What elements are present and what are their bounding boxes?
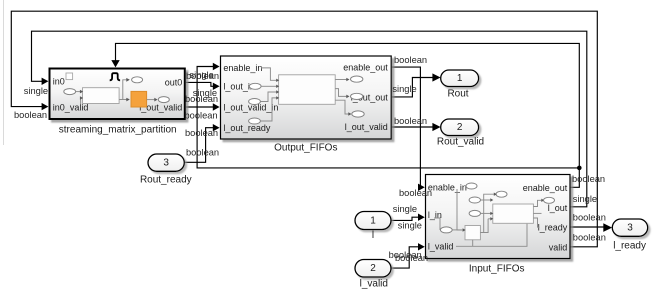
svg-text:l_out_valid: l_out_valid [345, 122, 388, 132]
wire l_valid to Input_FIFOs.l_valid [391, 243, 425, 268]
label Rout_valid [437, 137, 484, 148]
svg-text:boolean: boolean [394, 55, 427, 65]
svg-text:Rout_valid: Rout_valid [437, 137, 484, 148]
subsystem Output_FIFOs [221, 56, 392, 139]
svg-text:Rout: Rout [447, 88, 468, 99]
type label boolean (in0_valid) [14, 110, 47, 120]
type label single (above l_in) [393, 204, 417, 214]
svg-text:boolean: boolean [395, 253, 428, 263]
svg-text:valid: valid [549, 242, 568, 252]
svg-text:boolean: boolean [573, 233, 606, 243]
type label single (below l_in) [398, 220, 422, 230]
svg-text:enable_in: enable_in [223, 63, 262, 73]
wire l_out_out to Rout [392, 73, 441, 97]
subsystem Input_FIFOs [426, 175, 571, 259]
svg-text:l_valid: l_valid [428, 241, 454, 251]
svg-text:2: 2 [370, 263, 376, 274]
svg-text:single: single [393, 204, 417, 214]
svg-text:3: 3 [627, 223, 633, 234]
svg-text:enable_out: enable_out [523, 183, 568, 193]
type label boolean (IF enable_in) [399, 188, 432, 198]
wire out0 to l_out_in [186, 82, 220, 90]
svg-text:out0: out0 [165, 78, 183, 88]
svg-text:boolean: boolean [399, 188, 432, 198]
subsystem streaming_matrix_partition [50, 69, 185, 120]
type label single (in0) [24, 86, 48, 96]
label Output_FIFOs [274, 143, 337, 154]
svg-text:boolean: boolean [394, 116, 427, 126]
type label boolean (IF valid) [573, 233, 606, 243]
junction dot enable [577, 166, 582, 171]
svg-text:l_ready: l_ready [613, 241, 646, 252]
svg-text:streaming_matrix_partition: streaming_matrix_partition [59, 124, 177, 135]
svg-text:boolean: boolean [573, 213, 606, 223]
inport 2 l_valid [355, 260, 391, 278]
svg-text:boolean: boolean [14, 110, 47, 120]
wire l to l_in [391, 214, 425, 221]
type label boolean (corridor row4) [185, 128, 218, 138]
svg-text:single: single [392, 84, 416, 94]
type label boolean (corridor row3) [185, 111, 218, 121]
type label single (IF l_out) [573, 194, 597, 204]
label Rout [447, 88, 468, 99]
type label boolean (corridor row5) [186, 148, 219, 158]
svg-text:Input_FIFOs: Input_FIFOs [469, 263, 525, 274]
type label single+boolean (corridor row1) [186, 70, 219, 81]
svg-text:boolean: boolean [185, 128, 218, 138]
type label boolean (IF l_ready) [573, 213, 606, 223]
svg-text:2: 2 [457, 122, 463, 133]
wire Rout_ready to l_out_ready [185, 124, 220, 162]
type label boolean (OF enable_out) [394, 55, 427, 65]
svg-text:boolean: boolean [572, 174, 605, 184]
svg-text:Output_FIFOs: Output_FIFOs [274, 143, 337, 154]
wire l_ready to outport 3 [571, 223, 613, 232]
svg-text:single: single [573, 194, 597, 204]
label l_ready [613, 241, 646, 252]
label l_valid [360, 278, 388, 289]
svg-text:Rout_ready: Rout_ready [140, 174, 192, 185]
outport 2 Rout_valid [441, 119, 479, 136]
svg-text:enable_in: enable_in [428, 183, 467, 193]
svg-text:l_out: l_out [548, 203, 568, 213]
type label boolean x2 (l_valid) [389, 250, 428, 263]
wire l_out_valid to Rout_valid [392, 123, 441, 131]
wire Output_FIFOs.enable_out to Input_FIFOs.enable_in [392, 67, 425, 191]
svg-text:1: 1 [457, 73, 463, 84]
label Rout_ready [140, 174, 192, 185]
inport 3 Rout_ready [148, 154, 184, 171]
type label boolean (OF l_out_valid) [394, 116, 427, 126]
svg-text:l: l [372, 230, 374, 241]
label streaming_matrix_partition [59, 124, 177, 135]
svg-text:1: 1 [370, 215, 376, 226]
outport 3 l_ready [612, 219, 647, 236]
inport 1 l [355, 212, 391, 230]
svg-text:single: single [398, 220, 422, 230]
svg-text:single: single [24, 86, 48, 96]
svg-text:3: 3 [163, 158, 169, 169]
wire l_out_valid to l_out_valid_in [186, 103, 220, 110]
svg-text:l_valid: l_valid [360, 278, 388, 289]
type label single (l_out_out) [392, 84, 416, 94]
svg-text:boolean: boolean [185, 94, 218, 104]
wire enable branch to Output_FIFOs.enable_in [197, 63, 579, 168]
svg-text:l_ready: l_ready [538, 223, 568, 233]
type label boolean (IF enable_out) [572, 174, 605, 184]
label Input_FIFOs [469, 263, 525, 274]
wire enable loop (Input_FIFOs.enable_out to streaming enable port) [111, 43, 579, 187]
svg-text:enable_out: enable_out [343, 63, 388, 73]
canvas edge line [3, 0, 5, 145]
outport 1 Rout [441, 70, 479, 87]
wire valid loop (Input_FIFOs.valid to in0_valid) [11, 11, 597, 247]
svg-text:boolean: boolean [186, 71, 219, 81]
svg-text:boolean: boolean [186, 148, 219, 158]
label l [372, 230, 374, 241]
svg-text:in0: in0 [53, 77, 65, 87]
svg-text:l_out_ready: l_out_ready [223, 123, 271, 133]
svg-text:boolean: boolean [185, 111, 218, 121]
wire l_out loop (Input_FIFOs.l_out to in0) [32, 31, 587, 207]
type label single+boolean (corridor row2) [185, 88, 218, 104]
